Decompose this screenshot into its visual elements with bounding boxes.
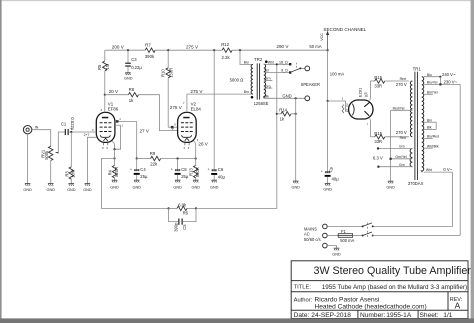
wire IN to RV1: [32, 130, 51, 147]
title block: [291, 261, 468, 319]
wire V1 grid input: [71, 131, 96, 133]
wire strap Brn to Blk: [435, 122, 437, 129]
svg-text:Grn/Yel: Grn/Yel: [395, 155, 406, 159]
wire tap Grn/Yel heater centre: [391, 158, 413, 160]
wire ground column from speaker minus: [295, 98, 297, 181]
svg-text:Date:: Date:: [294, 312, 310, 319]
TR1 HV secondary coil: [410, 81, 412, 137]
svg-text:240 V~: 240 V~: [442, 72, 456, 77]
connector mains terminal 2: [323, 233, 328, 238]
svg-text:1955 Tube Amp (based on the Mu: 1955 Tube Amp (based on the Mullard 3-3 …: [322, 284, 467, 291]
connector mains terminal 3: [323, 243, 328, 248]
wire tap Wht/Blk stub: [424, 147, 433, 149]
svg-text:22k: 22k: [150, 161, 158, 166]
cathode arc: [100, 135, 110, 137]
svg-text:+: +: [130, 168, 132, 172]
svg-text:3: 3: [342, 96, 344, 100]
connector speaker minus: [305, 96, 310, 101]
grid dashes row1: [181, 122, 193, 124]
svg-text:R5: R5: [97, 64, 102, 70]
svg-text:0 V~: 0 V~: [443, 167, 452, 172]
ground under C8: [175, 180, 181, 182]
heater stub pins: [104, 142, 108, 145]
capacitor C8: [171, 159, 189, 181]
svg-text:C6: C6: [218, 167, 224, 172]
svg-text:500k: 500k: [44, 150, 49, 160]
TR2 secondary coil: [264, 64, 266, 98]
wire R8 to V2 grid: [139, 95, 178, 131]
wire 20V to R8: [105, 94, 129, 96]
resistor R12: [221, 42, 232, 60]
svg-text:1k: 1k: [129, 98, 134, 103]
ground under IN: [25, 184, 31, 186]
svg-text:1258SE: 1258SE: [254, 101, 269, 106]
svg-text:27 V: 27 V: [140, 129, 150, 134]
svg-text:8: 8: [102, 146, 104, 150]
svg-text:16_Ω: 16_Ω: [279, 60, 288, 64]
ground under C9: [325, 183, 331, 185]
cathode curve: [352, 104, 354, 116]
resistor R6 feedback: [168, 202, 198, 215]
heater stub pins: [185, 142, 189, 145]
fuse F1: [338, 229, 354, 243]
svg-text:Blk: Blk: [264, 94, 269, 98]
wire C6 column from rail: [213, 50, 215, 169]
grid dashes row3: [181, 131, 193, 133]
svg-text:TITLE:: TITLE:: [294, 285, 312, 291]
svg-text:GND: GND: [210, 185, 219, 189]
svg-text:6.8k: 6.8k: [178, 202, 187, 207]
wire 0V down to mains switch: [373, 172, 453, 226]
node 2+7 pin to ground: [87, 137, 96, 183]
junction C8 top: [177, 157, 179, 159]
svg-text:C5: C5: [182, 224, 187, 230]
pin V1 top (to 20V node): [104, 95, 106, 113]
resistor R9: [150, 151, 161, 166]
svg-text:Org: Org: [265, 84, 271, 88]
svg-text:GND: GND: [47, 188, 56, 192]
resistor R10: [160, 50, 173, 127]
svg-text:200 V: 200 V: [112, 44, 125, 49]
svg-text:230 V~: 230 V~: [444, 80, 458, 85]
svg-text:Sheet:: Sheet:: [420, 312, 439, 319]
svg-text:SPEAKER: SPEAKER: [301, 82, 320, 87]
junction C6 column on rail: [213, 49, 215, 51]
svg-text:Blu/Yel: Blu/Yel: [427, 81, 438, 85]
svg-text:20 V: 20 V: [109, 89, 119, 94]
svg-text:GND: GND: [83, 188, 92, 192]
svg-text:C8: C8: [181, 167, 187, 172]
svg-text:6: 6: [101, 108, 103, 112]
svg-text:1M: 1M: [105, 63, 110, 69]
svg-text:GND: GND: [292, 185, 301, 189]
svg-text:C1: C1: [61, 122, 67, 127]
svg-text:290 V: 290 V: [276, 44, 289, 49]
grid dashes row1: [100, 122, 112, 124]
anode stroke upper: [364, 102, 370, 107]
wire tap Blu/Yel 230V: [424, 83, 460, 85]
wire Vcc to V5 cathode pins: [328, 101, 346, 112]
svg-text:Wht: Wht: [426, 168, 432, 172]
svg-text:EF86: EF86: [108, 106, 119, 111]
svg-text:100 mA: 100 mA: [330, 72, 345, 77]
svg-text:GND: GND: [332, 252, 341, 256]
wire tap Wht 0V: [424, 171, 453, 173]
resistor R4: [108, 149, 119, 180]
switch gang dashed link: [367, 223, 369, 237]
wire Vcc column down to rectifier: [327, 50, 329, 101]
wire tap Blk: [424, 129, 436, 131]
pin V2 cathode: [194, 141, 196, 159]
svg-text:TR2: TR2: [254, 57, 263, 62]
wire fuse to switch: [353, 235, 363, 237]
transformer TR2: [230, 57, 269, 106]
pin V5 anode2: [369, 119, 372, 137]
junction R13/cathode: [195, 157, 197, 159]
TR2 primary phase dot: [251, 96, 254, 99]
switch speaker select: [292, 63, 305, 72]
pin V2 screen pad: [171, 126, 174, 129]
svg-text:390p: 390p: [174, 222, 179, 232]
svg-text:270 V: 270 V: [396, 82, 407, 87]
svg-text:+: +: [208, 168, 210, 172]
wire IN jack sleeve to ground: [27, 134, 29, 184]
svg-text:275 V: 275 V: [170, 105, 183, 110]
svg-text:25µ: 25µ: [140, 174, 148, 179]
pin V1 lower-right: [115, 124, 121, 126]
resistor R15 bottom: [370, 131, 408, 144]
resistor R13: [189, 159, 200, 181]
ground under pin 2+7: [85, 184, 91, 186]
page edge borders: [0, 0, 474, 1]
svg-text:GND: GND: [386, 185, 395, 189]
svg-text:1: 1: [122, 123, 124, 127]
heater: [103, 138, 107, 141]
svg-text:A: A: [455, 301, 461, 311]
wire anode column with 27V label: [136, 122, 138, 159]
svg-text:GND: GND: [192, 185, 201, 189]
svg-text:R4: R4: [108, 169, 113, 175]
svg-text:EL84: EL84: [191, 106, 202, 111]
svg-text:GND: GND: [23, 188, 32, 192]
svg-text:SECOND CHANNEL: SECOND CHANNEL: [323, 27, 366, 32]
svg-text:C3: C3: [131, 57, 137, 62]
anode plate bar: [183, 117, 189, 119]
wire tap Brn: [424, 121, 436, 123]
svg-text:5: 5: [188, 146, 190, 150]
wire tap Blu/Red stub: [424, 138, 433, 140]
capacitor C3: [125, 50, 142, 72]
svg-text:1k: 1k: [280, 117, 285, 122]
wire 200V rail left segment: [105, 49, 145, 51]
svg-text:Heated Cathode (heatedcathode.: Heated Cathode (heatedcathode.com): [315, 304, 427, 311]
svg-text:270 V: 270 V: [396, 130, 407, 135]
tube V5 EZ81 rectifier: [349, 87, 373, 119]
svg-text:R15: R15: [374, 131, 382, 136]
svg-text:7: 7: [367, 122, 369, 126]
svg-text:R8: R8: [129, 87, 135, 92]
svg-text:4: 4: [119, 117, 121, 121]
wire feedback right leg: [196, 64, 277, 208]
anode plate bar: [102, 117, 108, 119]
junction C3 on rail: [127, 49, 129, 51]
wire R10 to V2 screen pin: [168, 126, 177, 128]
wire C1 to grid node: [69, 131, 72, 133]
svg-text:Number:: Number:: [360, 312, 385, 319]
svg-text:10M: 10M: [71, 169, 76, 178]
svg-text:Grn: Grn: [399, 145, 405, 149]
resistor R8: [128, 87, 138, 103]
svg-text:820R: 820R: [114, 167, 119, 177]
pin V5 heater stubs: [346, 106, 349, 112]
wire tap Blu 240V: [424, 76, 441, 78]
switch mains pole 1: [362, 223, 374, 228]
wire tap Wht 16 ohm: [264, 63, 289, 65]
TR1 core: [415, 72, 418, 180]
svg-text:8_Ω: 8_Ω: [281, 68, 288, 72]
svg-text:IN: IN: [35, 126, 39, 130]
svg-text:3W Stereo Quality Tube Amplifi: 3W Stereo Quality Tube Amplifier: [314, 265, 472, 277]
svg-text:25µ: 25µ: [181, 174, 189, 179]
junction feedback at cathode column: [113, 157, 115, 159]
svg-text:Wht/Blk: Wht/Blk: [427, 144, 439, 148]
svg-text:+: +: [321, 170, 323, 174]
svg-text:Red: Red: [400, 77, 406, 81]
wire TR2 primary top lead: [240, 50, 253, 64]
svg-text:Blu: Blu: [427, 73, 432, 77]
tube V1 EF86: [96, 102, 119, 150]
wire tap Blk GND to speaker: [264, 97, 305, 99]
capacitor C4: [130, 159, 148, 181]
wire 230V down to mains: [459, 84, 461, 235]
wire to R9: [137, 158, 151, 160]
ground under C4: [134, 180, 140, 182]
wire 275V rail segment: [155, 49, 222, 51]
wire mains live to fuse: [327, 235, 338, 237]
resistor R14: [276, 108, 297, 122]
svg-text:Brn/Yel: Brn/Yel: [427, 90, 438, 94]
svg-text:9: 9: [92, 128, 94, 132]
connector speaker plus: [305, 66, 310, 71]
wire mains live to TR1: [373, 235, 461, 237]
svg-text:275 V: 275 V: [186, 44, 199, 49]
node VCC arrow second channel: [309, 27, 366, 50]
grid dashes row2: [100, 126, 112, 128]
svg-text:EZ81: EZ81: [358, 87, 363, 97]
svg-text:GND: GND: [133, 185, 142, 189]
svg-text:2.2k: 2.2k: [222, 55, 231, 60]
svg-text:6.3 V: 6.3 V: [373, 156, 383, 161]
grid dashes row3: [100, 131, 112, 133]
TR2 primary coil: [251, 65, 253, 95]
resistor R7: [145, 42, 155, 58]
junction R10 on rail: [167, 49, 169, 51]
junction TR2 primary on rail: [239, 49, 241, 51]
svg-text:0.22µ: 0.22µ: [131, 65, 142, 70]
svg-text:GND: GND: [124, 77, 133, 81]
wire tap Yel 8 ohm: [264, 72, 289, 74]
resistor R3: [64, 132, 75, 183]
svg-text:24-SEP-2018: 24-SEP-2018: [311, 312, 351, 319]
svg-text:Brn: Brn: [244, 90, 249, 94]
svg-text:C9: C9: [328, 166, 335, 173]
junction cathode: [113, 148, 115, 150]
svg-text:33R: 33R: [374, 83, 382, 88]
wire RV1 bottom to ground: [50, 161, 52, 184]
ground under RV1: [48, 184, 54, 186]
svg-text:0.022µ: 0.022µ: [70, 117, 75, 130]
svg-text:33R: 33R: [374, 139, 382, 144]
svg-text:Brn: Brn: [427, 118, 432, 122]
wire 290V rail segment: [232, 49, 327, 51]
svg-text:GND: GND: [67, 188, 76, 192]
wire tap Grn heater bottom: [378, 166, 412, 168]
wire strap 240 to 230: [439, 77, 441, 85]
svg-text:GND: GND: [173, 185, 182, 189]
svg-text:C4: C4: [140, 167, 146, 172]
svg-text:40µ: 40µ: [332, 176, 340, 181]
ground under R13: [193, 180, 199, 182]
pin V5 anode1: [369, 81, 372, 100]
transformer TR1: [408, 67, 424, 186]
svg-text:560R: 560R: [195, 167, 200, 177]
wire V2 anode to TR2: [187, 93, 253, 95]
svg-text:Blk: Blk: [427, 126, 432, 130]
svg-text:TR1: TR1: [413, 67, 422, 72]
heater: [185, 138, 189, 141]
svg-text:Yel: Yel: [264, 69, 269, 73]
wire wiper up to C1: [58, 132, 64, 153]
switch mains pole 2: [362, 232, 374, 237]
TR2 core: [257, 63, 259, 99]
svg-text:R15: R15: [374, 75, 382, 80]
svg-text:40µ: 40µ: [218, 174, 226, 179]
svg-text:R12: R12: [221, 42, 229, 47]
pin V1 upper-right with pad: [115, 121, 137, 123]
resistor R5: [97, 50, 110, 94]
svg-text:50/60 c/s: 50/60 c/s: [304, 237, 321, 242]
ground under TR1 centre taps: [388, 181, 394, 183]
resistor R15 top: [370, 75, 408, 88]
svg-text:GND: GND: [110, 185, 119, 189]
svg-text:Grn: Grn: [399, 163, 405, 167]
connector mains terminal 1: [323, 224, 328, 229]
svg-text:1/1: 1/1: [443, 312, 452, 319]
wire suppressor loop to cathode: [115, 125, 121, 149]
svg-text:2+7: 2+7: [84, 133, 90, 137]
node 20V row: junction R5/V1/R8: [104, 94, 106, 96]
ground under C6: [211, 180, 217, 182]
svg-text:R14: R14: [279, 108, 287, 113]
wire tap Brn/Yel stub: [424, 93, 433, 95]
capacitor C1: [61, 117, 75, 135]
svg-text:GND: GND: [323, 188, 332, 192]
capacitor C9: [321, 101, 339, 183]
junction Vcc column on rail: [327, 49, 329, 51]
ground mains earth: [334, 248, 340, 250]
svg-text:GND: GND: [282, 93, 291, 98]
svg-text:+: +: [171, 168, 173, 172]
wire tap Grn stub: [264, 79, 273, 81]
svg-text:1955-1A: 1955-1A: [386, 312, 412, 319]
svg-text:26 V: 26 V: [198, 142, 208, 147]
svg-text:9: 9: [106, 146, 108, 150]
wire tap Red/Yel centre: [391, 109, 413, 111]
svg-text:Author:: Author:: [294, 298, 313, 304]
svg-text:370DAX: 370DAX: [408, 181, 424, 186]
cathode arc: [182, 135, 192, 137]
svg-text:7: 7: [183, 101, 185, 105]
wire mains earth: [327, 246, 336, 248]
svg-text:Grn: Grn: [265, 77, 271, 81]
capacitor C6: [208, 167, 226, 180]
ground under R3: [69, 184, 75, 186]
svg-text:1: 1: [367, 93, 369, 97]
svg-text:275 V: 275 V: [190, 89, 203, 94]
TR2 secondary phase dot: [265, 60, 268, 63]
svg-text:VCC: VCC: [320, 33, 324, 41]
capacitor C5: [169, 208, 196, 231]
svg-text:R13: R13: [189, 168, 194, 176]
svg-text:50 mA: 50 mA: [309, 44, 321, 49]
svg-text:5000 Ω: 5000 Ω: [230, 78, 244, 83]
grid dashes row2: [181, 126, 193, 128]
svg-text:R6: R6: [183, 211, 189, 216]
wire R9 to V2 cathode row: [161, 158, 196, 160]
tube V2 EL84: [178, 102, 202, 150]
svg-text:390k: 390k: [145, 54, 155, 59]
wire mains neutral to switch: [327, 225, 362, 227]
svg-text:R9: R9: [150, 151, 156, 156]
TR1 heater coil: [410, 149, 412, 167]
junction grid node R3: [70, 131, 72, 133]
potentiometer RV1: [41, 146, 59, 160]
svg-text:Blu/Red: Blu/Red: [427, 135, 439, 139]
svg-text:4: 4: [184, 146, 186, 150]
svg-text:Red: Red: [400, 136, 406, 140]
svg-text:R3: R3: [64, 171, 69, 177]
pin V2 anode top: [186, 94, 188, 112]
svg-text:500 mA: 500 mA: [340, 238, 354, 243]
svg-text:Wht: Wht: [268, 60, 274, 64]
wire tap Grn heater top: [378, 148, 412, 150]
wire feedback left leg: [102, 158, 169, 208]
svg-text:Red/Yel: Red/Yel: [393, 106, 405, 110]
svg-text:R7: R7: [145, 42, 151, 47]
svg-text:9: 9: [174, 123, 176, 127]
svg-text:Blu: Blu: [244, 61, 249, 65]
junction C4 top on 27V column: [136, 157, 138, 159]
ground under C3: [125, 73, 131, 75]
svg-text:F1: F1: [341, 229, 347, 234]
wire tap Org stub: [264, 87, 273, 89]
anode stroke lower: [365, 111, 370, 116]
TR1 primary coil: [422, 77, 424, 172]
ground under R14 column: [293, 181, 299, 183]
svg-text:R10: R10: [160, 69, 165, 77]
junction C9: [327, 100, 329, 102]
connector IN jack: [23, 126, 38, 134]
svg-text:150R: 150R: [168, 68, 173, 78]
pin V1 cathode: [112, 141, 114, 149]
wire HT centre tap down to ground: [390, 110, 392, 181]
ground under R4: [112, 180, 118, 182]
